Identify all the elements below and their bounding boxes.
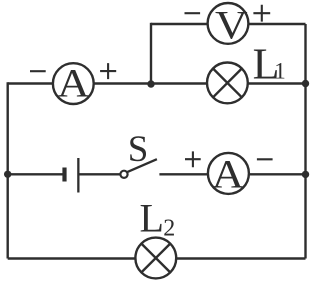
svg-text:L: L: [140, 196, 164, 241]
svg-text:S: S: [128, 129, 149, 170]
svg-text:A: A: [57, 61, 90, 105]
svg-text:2: 2: [163, 216, 175, 242]
svg-text:A: A: [212, 153, 245, 197]
svg-text:1: 1: [274, 59, 286, 84]
svg-text:V: V: [215, 4, 248, 48]
